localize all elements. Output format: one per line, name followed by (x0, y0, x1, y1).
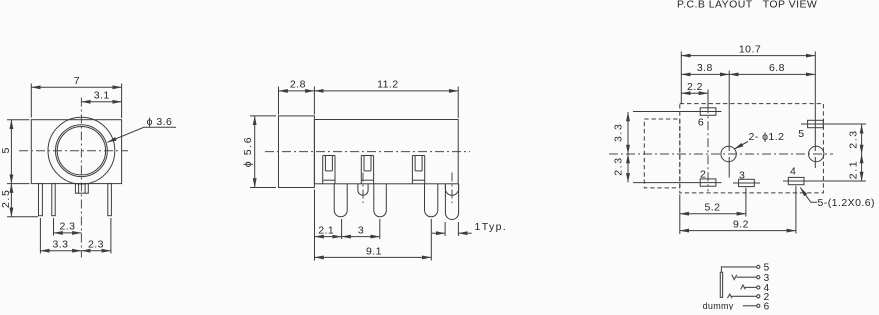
svg-text:P.C.B LAYOUT TOP VIEW: P.C.B LAYOUT TOP VIEW (677, 0, 817, 11)
svg-text:2: 2 (700, 168, 706, 180)
svg-text:9.2: 9.2 (733, 219, 749, 231)
svg-text:5-(1.2X0.6): 5-(1.2X0.6) (818, 197, 875, 209)
svg-text:10.7: 10.7 (739, 43, 761, 55)
svg-text:2.5: 2.5 (0, 189, 12, 208)
svg-text:2.8: 2.8 (290, 79, 306, 91)
svg-text:3: 3 (358, 225, 364, 237)
svg-text:4: 4 (790, 165, 796, 177)
svg-text:2.3: 2.3 (847, 129, 859, 148)
svg-text:3.3: 3.3 (612, 123, 624, 142)
svg-text:2.1: 2.1 (847, 160, 859, 179)
svg-text:2.1: 2.1 (318, 225, 334, 237)
svg-text:ϕ 3.6: ϕ 3.6 (147, 116, 173, 128)
svg-text:2.3: 2.3 (612, 156, 624, 175)
svg-text:9.1: 9.1 (366, 245, 382, 257)
svg-text:11.2: 11.2 (377, 79, 398, 91)
svg-text:2.2: 2.2 (687, 81, 703, 93)
svg-text:6: 6 (698, 116, 704, 128)
svg-text:3.1: 3.1 (94, 89, 110, 101)
svg-text:ϕ 5.6: ϕ 5.6 (242, 136, 254, 167)
svg-text:6: 6 (764, 301, 770, 310)
svg-text:3: 3 (739, 170, 745, 182)
svg-text:2.3: 2.3 (60, 221, 76, 233)
svg-text:3.3: 3.3 (53, 239, 69, 251)
svg-text:2- ϕ1.2: 2- ϕ1.2 (749, 131, 785, 143)
svg-text:dummy: dummy (703, 301, 734, 310)
svg-text:5: 5 (0, 146, 12, 153)
svg-text:3.8: 3.8 (697, 62, 713, 74)
svg-text:7: 7 (74, 75, 80, 87)
svg-text:5.2: 5.2 (705, 202, 721, 214)
svg-text:1Typ.: 1Typ. (475, 221, 508, 233)
svg-text:6.8: 6.8 (769, 62, 785, 74)
svg-text:5: 5 (798, 128, 804, 140)
svg-text:2.3: 2.3 (88, 239, 104, 251)
